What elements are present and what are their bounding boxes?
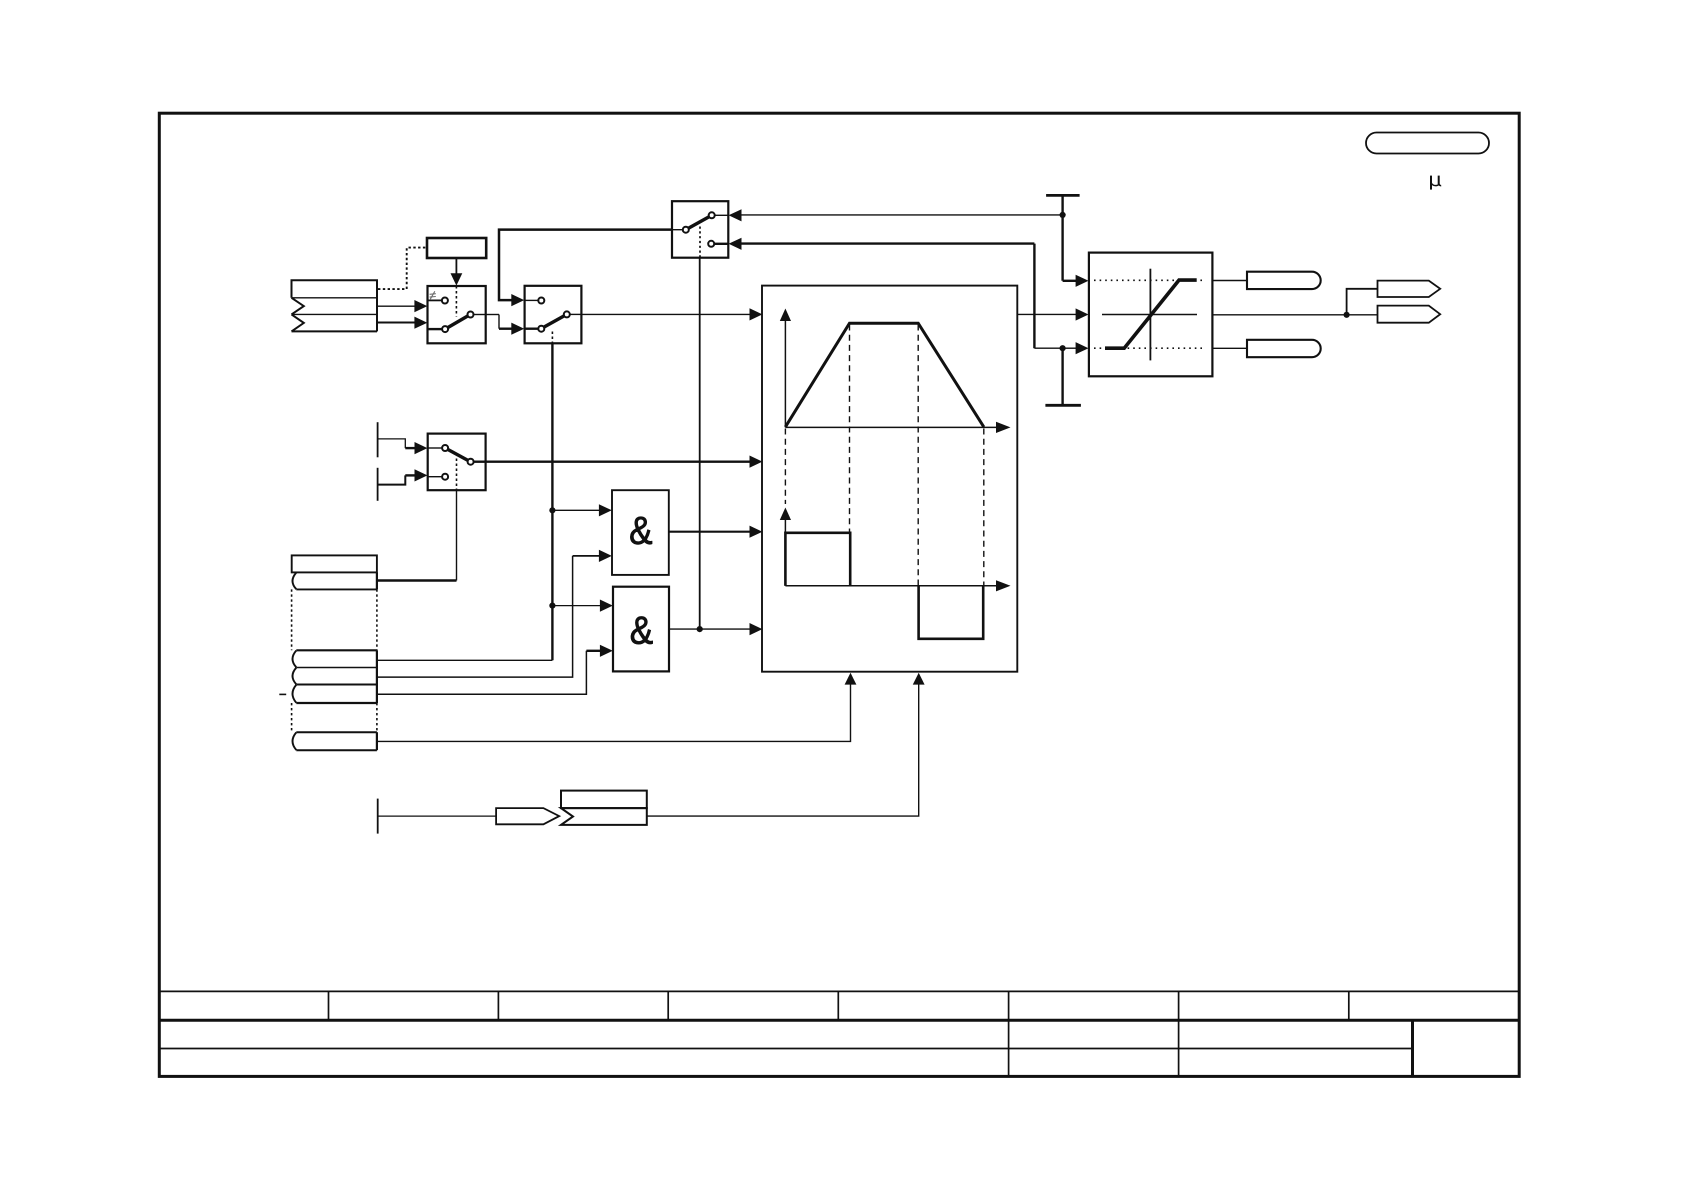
switch S1 (feedback setting switch, top) — [672, 201, 728, 258]
dotted stack continuation upper — [291, 589, 293, 650]
connector stack K2 (control word) — [292, 555, 377, 589]
ramp-function generator RFG box — [762, 286, 1017, 672]
function label pill (top right) — [1366, 133, 1489, 154]
output pill y+ — [1247, 272, 1321, 289]
wire limiter output y- — [1212, 347, 1247, 349]
RFG positive pulse curve — [785, 533, 850, 586]
terminal bar S4 input 1 — [377, 422, 379, 457]
wire to connector flag P1 — [378, 815, 496, 817]
RFG negative pulse curve — [919, 586, 984, 639]
AND gate G2 — [613, 587, 669, 672]
wire S2 pole to S3 input 2 — [486, 314, 499, 316]
switch S4 (additional setpoint switch) — [428, 434, 486, 491]
dotted reference line K1 to comparator B1 — [378, 248, 427, 290]
limiter vertical axis — [1149, 269, 1151, 361]
limiter block U1 — [1089, 253, 1213, 377]
wire K1 row3 to switch S2 input 2 — [377, 322, 416, 324]
wire branch up to connector O1 — [1347, 289, 1378, 315]
wire RFG output to limiter input 2 — [1017, 313, 1077, 315]
wire B1 control to switch S2 — [455, 258, 457, 275]
wire y- feedback down — [1033, 244, 1035, 349]
dashed guide lines — [849, 325, 851, 533]
output connector O1 — [1378, 281, 1441, 297]
connector stack K1 (setpoint inputs, top left) — [292, 280, 378, 331]
node control to AND G2 — [549, 603, 555, 609]
wire K5 to ramp generator bottom input 2 — [647, 675, 919, 817]
wire feedback y- to S1 — [741, 242, 1035, 244]
T terminal y- limit — [1061, 348, 1063, 405]
dotted stack continuation lower — [291, 703, 293, 732]
output pill y- — [1247, 340, 1321, 357]
node control to AND G1 — [549, 507, 555, 513]
wire K4 to ramp generator bottom input 1 — [377, 675, 851, 742]
connector stack K3 (3 control rows) — [293, 650, 377, 703]
wire S4 output to ramp generator input 2 — [486, 461, 751, 463]
node G2 output to S1 control — [697, 626, 703, 632]
switch S3 (ramp generator input switch) — [525, 286, 582, 344]
wire K3 row2 to AND G1 input 2 — [377, 556, 573, 677]
limiter horizontal axis — [1102, 314, 1197, 316]
wire K3 row3 to AND G2 input 2 — [377, 651, 587, 694]
limiter characteristic curve — [1105, 280, 1197, 348]
RFG upper plot y-axis — [784, 313, 786, 427]
RFG lower plot t-axis — [785, 585, 997, 587]
RFG upper plot t-axis — [785, 426, 997, 428]
switch S2 (setpoint selector) — [428, 286, 486, 343]
T terminal y+ limit — [1046, 194, 1080, 197]
mu label — [1431, 176, 1441, 190]
RFG trapezoid ramp curve — [785, 323, 983, 427]
wire to S4 input 1 — [378, 439, 406, 448]
limiter dotted limit levels — [1094, 279, 1206, 281]
connector K4 (single row, bottom of stack) — [293, 732, 377, 750]
wire S1 control line down — [699, 258, 701, 629]
wire limiter output y — [1212, 314, 1346, 316]
node feedback tap on y+ rail — [1060, 212, 1066, 218]
node y- limit — [1060, 345, 1066, 351]
output connector O2 — [1378, 306, 1441, 323]
minus label left of K3 — [279, 693, 286, 695]
arrow into S1 input 2 — [729, 238, 742, 250]
connector flag P1 — [496, 808, 559, 824]
wire into limiter input 3 — [1063, 347, 1078, 349]
drawing frame border (decorative) — [159, 113, 1519, 1076]
wire G1 output to ramp generator input 3 — [669, 531, 751, 533]
wire K1 row2 to switch S2 input 1 — [377, 305, 416, 307]
wire into limiter input 1 — [1063, 280, 1078, 282]
terminal bar S4 input 2 — [377, 468, 379, 501]
wire control bus from K3 row1 up to S3 control — [551, 343, 553, 660]
wire to S4 input 2 — [378, 475, 406, 484]
comparator box B1 — [427, 238, 486, 258]
RFG lower plot y-axis — [784, 512, 786, 586]
AND gate G1 — [612, 490, 669, 575]
terminal bar bottom reference input — [377, 799, 379, 834]
wire S4 control from K2 — [456, 490, 458, 580]
wire feedback y+ to S1 — [741, 214, 1063, 216]
wire limiter output y+ — [1212, 280, 1247, 282]
wire G2 output to ramp generator input 4 — [669, 628, 751, 630]
wire to connector O2 — [1347, 314, 1378, 316]
node output branch — [1344, 312, 1350, 318]
title block grid (decorative) — [158, 990, 1519, 992]
arrow into S1 input 1 — [729, 209, 742, 221]
connector target box K5 — [561, 791, 647, 809]
wire S3 output to ramp generator input 1 — [581, 313, 750, 315]
wire S1 pole to S3 input 1 — [499, 230, 672, 301]
